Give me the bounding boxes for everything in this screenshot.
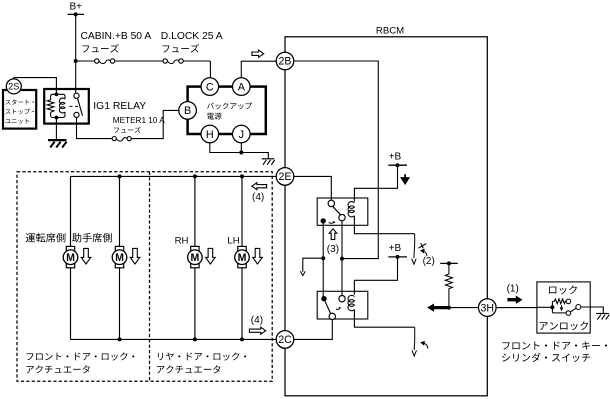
unlock relay switch contact NC: [339, 296, 345, 302]
svg-text:LH: LH: [227, 236, 239, 247]
module RBCM box: [285, 37, 487, 396]
wire 2E to lock relay switch: [294, 176, 332, 200]
label CABIN.+B 50 A fuse: [81, 31, 152, 52]
junction passenger side top rail: [118, 174, 122, 178]
label unlock position: [540, 322, 548, 330]
wire IG1 relay coil to ground: [55, 118, 57, 140]
label start-stop unit (3 lines): [5, 99, 34, 124]
wire actuator bottom rail to 2C: [71, 338, 277, 340]
IG1 relay switch blade: [78, 98, 83, 115]
connector 2S: [6, 79, 21, 94]
wire relay common line (lock to unlock relay): [322, 221, 324, 299]
node B+ battery terminal: [68, 1, 84, 16]
svg-text:+B: +B: [389, 243, 402, 254]
wire driver side motor vertical: [70, 176, 72, 246]
junction B+ / fuse feed: [74, 59, 78, 63]
wire H to ground rail: [210, 143, 242, 153]
key switch unlock branch: [552, 312, 566, 314]
svg-text:B+: B+: [70, 1, 83, 12]
lock relay switch common dot: [321, 218, 326, 223]
pin B: [179, 102, 197, 120]
svg-text:M: M: [66, 252, 75, 264]
wire RH motor vertical: [194, 176, 196, 246]
wire 2S to IG1 relay coil: [14, 78, 57, 94]
label driver seat side: [26, 233, 35, 242]
net +B (lock relay): [388, 152, 407, 168]
motor driver side door lock actuator: [63, 246, 78, 267]
fuse METER1 10 A: [112, 137, 131, 142]
wire fuse bus horizontal: [76, 60, 211, 62]
fuse CABIN.+B 50 A: [95, 59, 115, 64]
key switch lock contact: [566, 299, 571, 304]
svg-text:(2): (2): [423, 256, 435, 267]
arrow unlock output (open, with hook): [412, 327, 417, 356]
wire D.LOCK fuse to terminal C: [209, 61, 211, 78]
unlock relay switch blade: [325, 301, 331, 313]
arrow (2) motion hook: [423, 251, 428, 256]
arrow output left (filled): [428, 304, 448, 311]
svg-text:J: J: [239, 129, 244, 141]
enclosure front door lock actuator (dashed): [17, 172, 272, 381]
wire ground rail right: [241, 153, 268, 159]
label backup power supply (2 lines): [207, 102, 252, 119]
svg-text:D.LOCK 25 A: D.LOCK 25 A: [161, 31, 223, 42]
unlock relay blade motion hook: [336, 307, 340, 309]
svg-text:C: C: [206, 81, 214, 93]
IG1 relay switch contact top: [74, 93, 79, 98]
arrow battery feed down (lock relay): [402, 174, 409, 183]
arrow passenger side lock direction: [130, 248, 140, 264]
svg-text:M: M: [190, 252, 199, 264]
divider rear actuator (dashed): [149, 172, 151, 381]
wire changeover contact line: [341, 221, 343, 296]
wire resistor junction to 3H: [448, 307, 479, 309]
key switch branch stem: [551, 301, 553, 313]
svg-text:M: M: [238, 252, 247, 264]
junction LH top rail: [240, 174, 244, 178]
svg-text:IG1 RELAY: IG1 RELAY: [93, 101, 146, 112]
wire lock relay coil to key switch branch: [354, 216, 414, 234]
arrow (4) out of actuators: [249, 327, 265, 334]
IG1 relay bottom junction: [55, 116, 59, 120]
wire unlock relay coil to output: [354, 310, 414, 328]
lock relay switch contact NC: [339, 214, 345, 220]
key switch lock resistor: [552, 299, 566, 304]
IG1 relay coil frame: [51, 94, 65, 117]
wire J to ground rail: [240, 143, 242, 153]
arrow feed direction into 2B: [252, 50, 264, 57]
arrow RH lock direction: [206, 248, 216, 264]
label METER1 10 A fuse: [113, 116, 165, 133]
motor passenger side door lock actuator: [112, 246, 127, 267]
arrow (1) filled right: [508, 296, 522, 303]
ground key cylinder switch: [596, 314, 609, 320]
pin H: [201, 125, 219, 143]
unlock relay switch contact bottom: [329, 313, 335, 319]
wire +B to lock relay coil: [354, 165, 397, 201]
wire key switch to ground: [581, 307, 604, 313]
IG1 relay switch contact bottom: [74, 112, 79, 117]
relay lock-relay box: [317, 198, 368, 225]
connector 2E: [276, 168, 294, 186]
wire B+ vertical down to IG1 relay switch: [75, 14, 77, 93]
junction resistor / 3H wire: [447, 306, 451, 310]
relay unlock-relay box: [317, 291, 368, 319]
svg-text:3H: 3H: [481, 302, 495, 314]
fuse D.LOCK 25 A: [163, 59, 183, 64]
key switch common wire and dot: [537, 306, 553, 308]
motor LH door lock actuator: [235, 246, 250, 267]
pin C: [201, 78, 219, 96]
svg-text:RH: RH: [175, 236, 189, 247]
junction changeover line: [340, 257, 344, 261]
wire 2B to changeover contact line: [294, 61, 379, 259]
net stub to key cylinder resistor: [440, 261, 458, 265]
arrow driver side lock direction: [81, 248, 91, 264]
connector 2C: [276, 331, 294, 349]
svg-text:A: A: [238, 81, 246, 93]
junction LH bottom rail: [240, 337, 244, 341]
wire passenger side motor vertical: [119, 176, 121, 246]
svg-text:2B: 2B: [279, 56, 292, 68]
ground IG1 relay: [48, 140, 67, 147]
label front door lock actuator (2 lines): [26, 352, 134, 373]
unlock relay coil windings: [348, 295, 354, 310]
junction RH bottom rail: [193, 337, 197, 341]
svg-text:2E: 2E: [279, 171, 292, 183]
IG1 relay actuation dashes: [70, 105, 79, 107]
svg-text:(3): (3): [327, 244, 339, 255]
svg-text:METER1 10 A: METER1 10 A: [113, 116, 165, 125]
label front door key cylinder switch (2 lines): [502, 341, 607, 362]
wire actuator top rail to 2E: [71, 175, 276, 177]
unlock relay switch common dot: [321, 296, 326, 301]
wire LH motor vertical: [241, 176, 243, 246]
key switch movable contact: [576, 305, 581, 310]
svg-text:(1): (1): [507, 283, 519, 294]
svg-text:2S: 2S: [8, 82, 19, 92]
arrow (4) into actuators: [252, 183, 267, 190]
switch (2) key-unlock input: [412, 234, 417, 265]
lock relay switch blade: [333, 206, 341, 215]
label rear door lock actuator (2 lines): [157, 352, 246, 373]
ground backup power supply: [262, 159, 275, 165]
wire +B to unlock relay coil: [354, 257, 397, 295]
IG1 relay coil windings: [59, 98, 65, 113]
pin A: [233, 78, 251, 96]
IG1 relay resistor: [47, 100, 54, 113]
svg-text:RBCM: RBCM: [376, 26, 404, 37]
svg-text:(4): (4): [251, 315, 263, 326]
lock relay switch contact top: [328, 200, 334, 206]
motor RH door lock actuator: [188, 246, 203, 267]
IG1 relay top junction: [55, 92, 59, 96]
wire unlock relay switch to 2C: [294, 320, 333, 340]
relay IG1 RELAY box: [44, 89, 89, 124]
arrow LH lock direction: [253, 248, 263, 264]
connector 2B: [276, 52, 294, 70]
unit backup power supply box: [188, 87, 266, 134]
svg-text:2C: 2C: [278, 334, 292, 346]
junction RH top rail: [193, 174, 197, 178]
switch (2) fixed contact: [418, 243, 426, 248]
lock relay coil windings: [348, 202, 354, 217]
wire IG1 switch to METER1 fuse: [77, 118, 113, 139]
svg-text:H: H: [206, 129, 214, 141]
svg-text:CABIN.+B 50 A: CABIN.+B 50 A: [81, 31, 152, 42]
switch key cylinder box: [537, 282, 590, 333]
arrow output to door lock motors (open): [300, 271, 305, 276]
svg-text:+B: +B: [389, 152, 402, 163]
pin J: [233, 125, 251, 143]
unit 2S start-stop unit box: [3, 90, 36, 129]
svg-text:B: B: [184, 105, 191, 117]
wire METER1 fuse to terminal B: [131, 110, 179, 138]
junction J ground rail: [239, 151, 243, 155]
wire 3H to key cylinder switch: [496, 307, 537, 309]
wire common branch to output arrow: [303, 258, 323, 270]
label lock position: [549, 287, 556, 294]
arrow (3) lock actuation: [329, 229, 337, 240]
wire terminal A to connector 2B: [241, 61, 276, 78]
svg-text:M: M: [115, 252, 124, 264]
junction common line: [321, 256, 325, 260]
svg-text:(4): (4): [252, 192, 264, 203]
lock relay blade motion hook: [329, 221, 335, 223]
resistor key input pull: [445, 263, 452, 307]
label passenger seat side: [72, 233, 81, 242]
junction passenger side bottom rail: [118, 337, 122, 341]
connector 3H: [479, 299, 497, 317]
key switch motion arrow: [560, 305, 563, 310]
net +B (unlock relay): [388, 243, 407, 259]
label D.LOCK 25 A fuse: [161, 31, 223, 52]
key switch unlock contact: [566, 311, 571, 316]
